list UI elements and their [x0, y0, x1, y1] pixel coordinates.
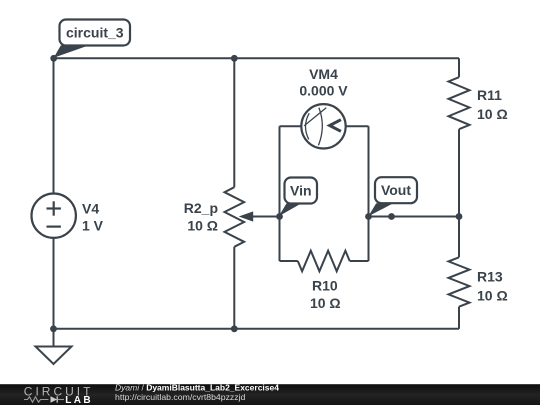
wire voltmeter right lead: [346, 125, 369, 127]
svg-text:R13: R13: [477, 269, 503, 285]
wire pot bottom lead: [233, 247, 235, 329]
node Vin label: [279, 178, 317, 217]
voltage source V4: [32, 194, 104, 238]
svg-text:VM4: VM4: [309, 66, 338, 82]
node junction right rail: [456, 213, 463, 220]
resistor R10: [298, 251, 350, 312]
svg-text:http://circuitlab.com/cvrt8b4p: http://circuitlab.com/cvrt8b4pzzzjd: [115, 392, 246, 402]
svg-text:Vout: Vout: [381, 182, 411, 198]
wire top horizontal: [54, 57, 460, 59]
node junction wire stub: [388, 213, 395, 220]
footer attribution text: [115, 383, 279, 403]
svg-text:0.000 V: 0.000 V: [299, 83, 348, 99]
svg-text:1 V: 1 V: [82, 218, 104, 234]
node junction bottom-left: [50, 325, 57, 332]
wire bottom horizontal: [54, 328, 460, 330]
node label circuit_3: [54, 20, 130, 58]
svg-text:10 Ω: 10 Ω: [477, 287, 508, 303]
node junction pot top: [231, 55, 238, 62]
potentiometer R2_p: [184, 187, 244, 247]
CircuitLab logo: [24, 384, 94, 405]
wire right rail top segment: [458, 58, 460, 77]
wire left rail lower: [53, 238, 55, 329]
wire voltmeter right vertical: [368, 126, 370, 261]
svg-text:LAB: LAB: [65, 395, 93, 405]
svg-text:circuit_3: circuit_3: [66, 24, 124, 40]
wire wiper: [239, 211, 280, 221]
svg-text:10 Ω: 10 Ω: [477, 106, 508, 122]
svg-text:R2_p: R2_p: [184, 200, 218, 216]
footer bar: [0, 384, 540, 405]
svg-text:10 Ω: 10 Ω: [310, 295, 341, 311]
resistor R11: [449, 77, 508, 129]
ground: [36, 329, 72, 364]
wire R10 left lead: [280, 260, 298, 262]
resistor R13: [449, 257, 508, 306]
wire Vout horizontal: [369, 216, 460, 218]
svg-text:R11: R11: [477, 87, 502, 103]
wire pot top lead: [233, 58, 235, 187]
node A junction top-left: [50, 55, 57, 62]
node Vout junction: [365, 213, 372, 220]
wire voltmeter left vertical: [279, 126, 281, 261]
svg-text:V4: V4: [82, 200, 99, 216]
svg-text:Dyami / DyamiBlasutta_Lab2_Exc: Dyami / DyamiBlasutta_Lab2_Excercise4: [115, 383, 279, 393]
svg-text:R10: R10: [312, 278, 338, 294]
voltmeter VM4: [299, 66, 348, 149]
wire right rail bottom segment: [458, 307, 460, 329]
svg-text:Vin: Vin: [290, 182, 312, 198]
wire left rail upper: [53, 58, 55, 193]
node junction pot bottom: [231, 325, 238, 332]
wire voltmeter left lead: [280, 125, 302, 127]
svg-text:10 Ω: 10 Ω: [187, 217, 218, 233]
node Vin junction: [276, 213, 283, 220]
wire right rail mid segment: [458, 129, 460, 257]
node Vout label: [368, 177, 417, 216]
wire R10 right lead: [350, 260, 369, 262]
